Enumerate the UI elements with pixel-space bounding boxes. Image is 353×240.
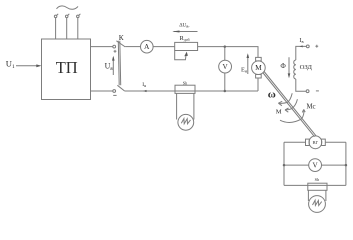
- svg-text:Ея: Ея: [241, 67, 247, 74]
- svg-text:U1: U1: [6, 58, 15, 70]
- svg-text:ΔUя,: ΔUя,: [179, 23, 189, 29]
- svg-text:Rдоб: Rдоб: [180, 35, 190, 42]
- svg-text:А: А: [144, 42, 150, 51]
- svg-text:Мс: Мс: [307, 104, 316, 111]
- svg-text:М: М: [255, 63, 262, 72]
- svg-text:Sh: Sh: [315, 177, 320, 182]
- svg-text:ОЗД: ОЗД: [300, 64, 313, 71]
- svg-text:ВГ: ВГ: [313, 140, 319, 145]
- svg-text:М: М: [276, 108, 282, 115]
- svg-text:Uя: Uя: [105, 62, 114, 72]
- svg-text:Iя: Iя: [142, 82, 146, 88]
- svg-text:Ф: Ф: [280, 63, 286, 70]
- svg-text:V: V: [222, 63, 228, 71]
- svg-text:ТП: ТП: [56, 58, 78, 77]
- svg-text:V: V: [312, 162, 318, 170]
- svg-text:К: К: [119, 33, 124, 42]
- svg-text:Iв: Iв: [299, 37, 303, 44]
- svg-text:ω: ω: [268, 89, 276, 101]
- svg-text:Sh: Sh: [183, 80, 188, 85]
